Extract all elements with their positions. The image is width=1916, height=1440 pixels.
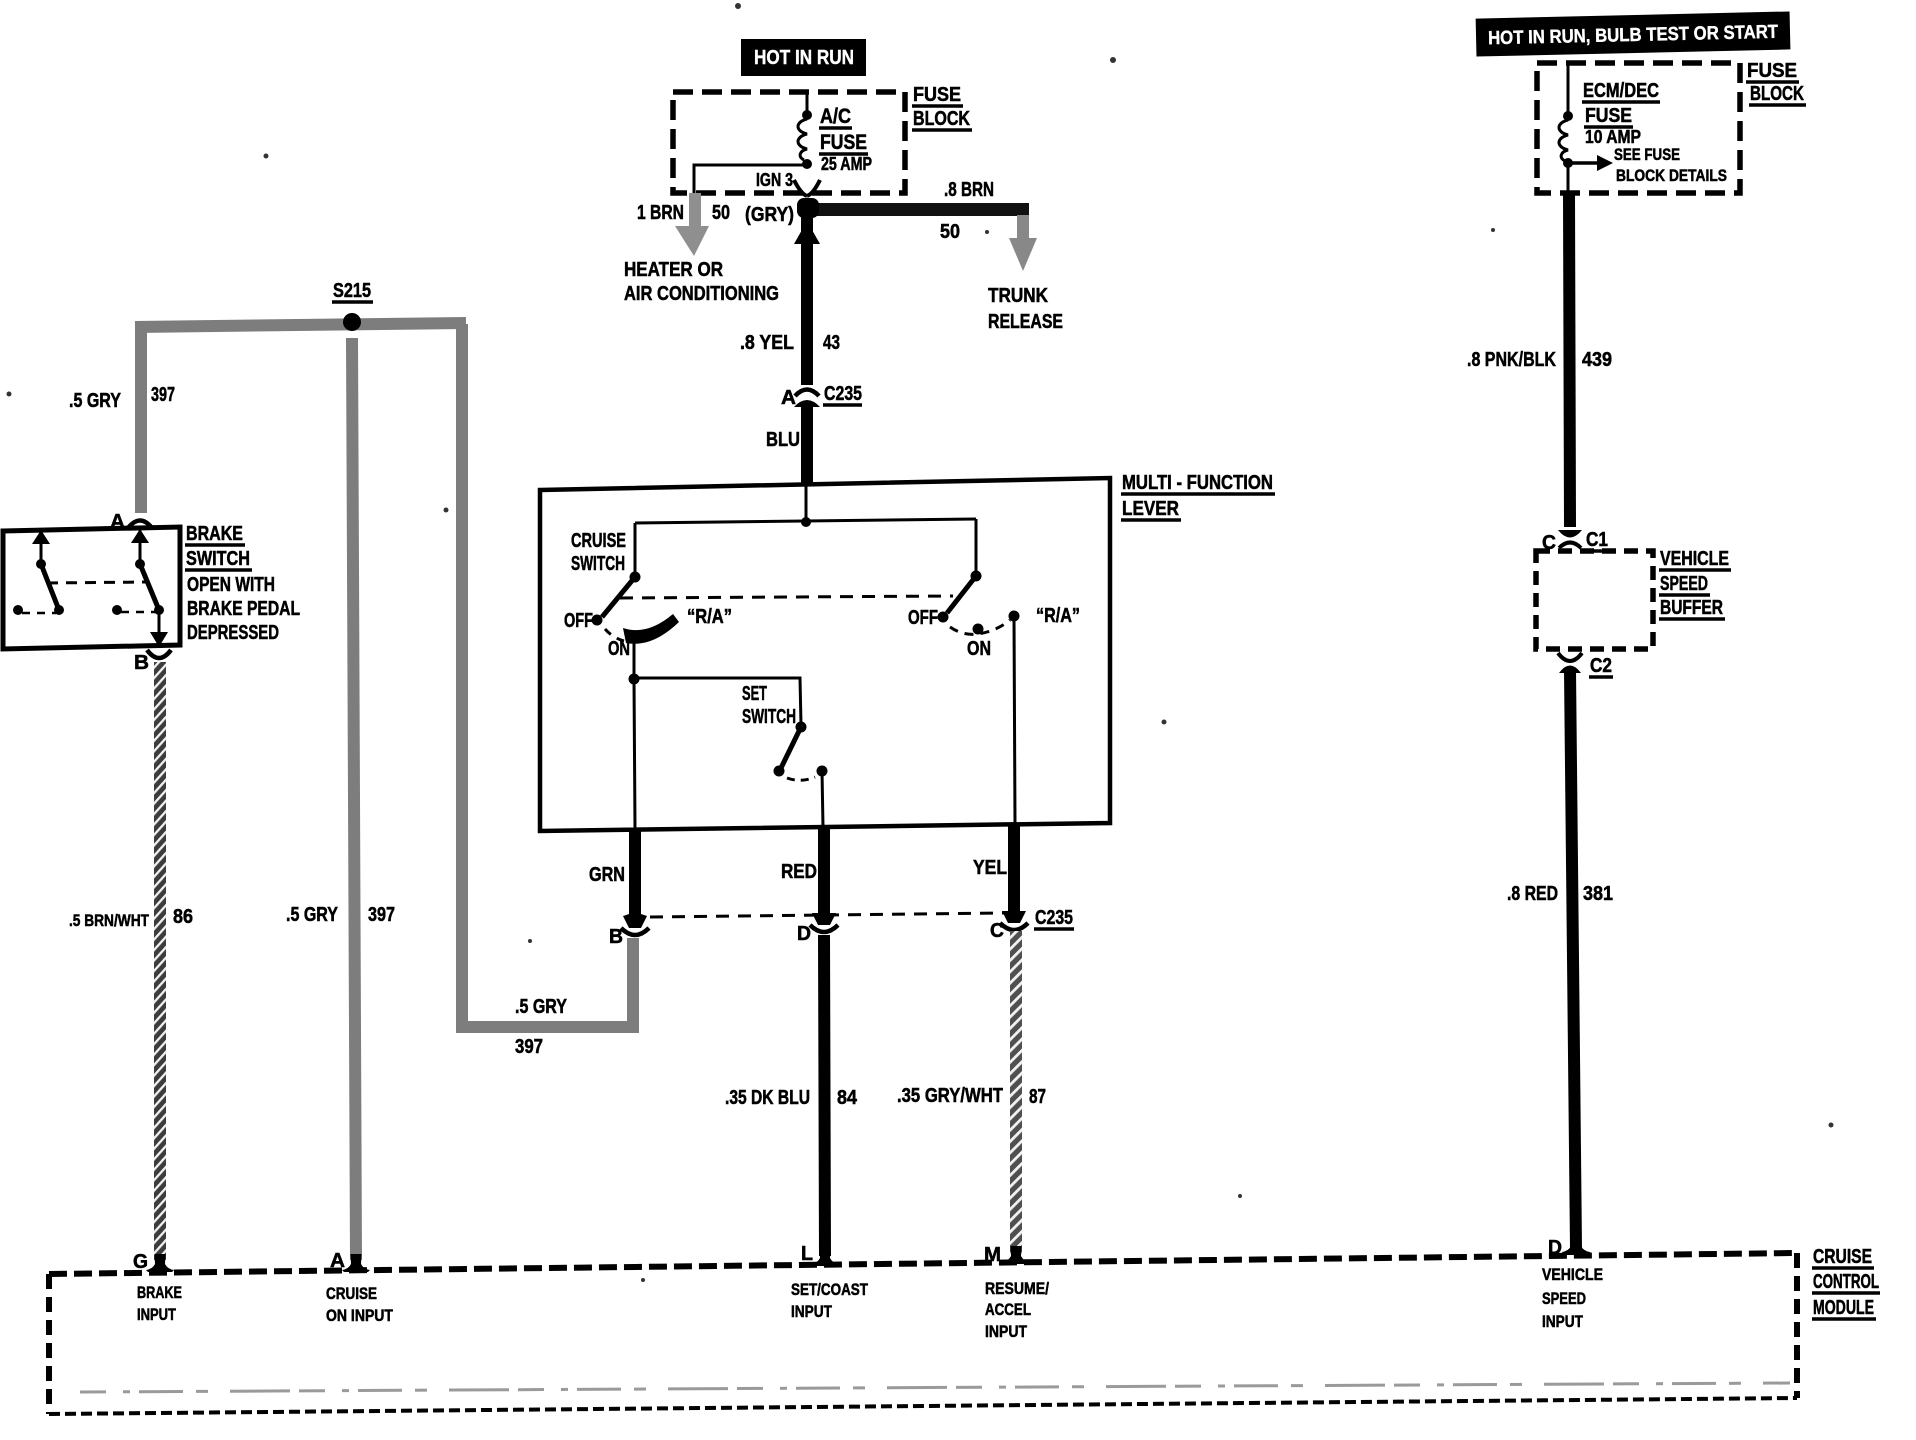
svg-text:IGN 3: IGN 3 [756,170,793,190]
wire fuse block top to fuse [806,92,809,113]
connector module pin L [811,1248,839,1266]
label IGN 3 (GRY) [745,170,794,226]
label .5 BRN/WHT 86 [69,906,193,930]
dashed throw arc left [605,629,624,641]
svg-text:BRAKE: BRAKE [186,523,243,545]
connector C2 [1558,653,1582,673]
svg-text:OFF: OFF [908,607,938,629]
label C2 [1589,655,1613,677]
connector module pin M [1002,1246,1030,1264]
connector C1 [1558,530,1582,548]
svg-text:397: 397 [151,384,175,406]
label .8 PNK/BLK 439 [1467,349,1612,371]
multi-function lever box [540,478,1110,831]
label .8 BRN 50 [940,179,994,243]
svg-text:CRUISE: CRUISE [571,530,626,552]
label VEHICLE SPEED INPUT [1542,1265,1603,1331]
connector brake switch pin A [128,521,152,529]
arrow up left pole [32,530,50,544]
node right pole pivot [135,559,145,569]
connector C235 pin B [621,912,649,935]
dashed throw arc set switch [787,777,815,780]
svg-text:INPUT: INPUT [985,1322,1028,1341]
svg-text:.8 YEL: .8 YEL [740,332,794,354]
arrow up at junction [794,221,820,244]
dashed connector line C235 [650,913,1004,917]
svg-text:FUSE: FUSE [820,131,867,154]
svg-text:B: B [134,652,149,674]
label HEATER OR AIR CONDITIONING [624,259,779,305]
label .35 GRY/WHT 87 [897,1085,1046,1108]
wire .5 GRY horizontal at S215 [135,323,466,327]
svg-text:GRN: GRN [589,864,625,886]
connector C235 pin C [1000,911,1028,930]
svg-text:M: M [984,1244,1001,1266]
wire ECM fuse top [1567,63,1570,114]
label CRUISE SWITCH [571,530,626,575]
svg-text:.35 GRY/WHT: .35 GRY/WHT [897,1085,1003,1107]
label RESUME/ACCEL INPUT [985,1279,1049,1341]
svg-text:BRAKE: BRAKE [137,1283,182,1302]
node set contact right [817,766,828,777]
svg-text:HEATER OR: HEATER OR [624,259,723,281]
svg-text:C: C [990,920,1004,942]
svg-text:B: B [609,926,623,948]
wire left drop to cruise switch [634,523,637,574]
node OFF contact right [938,612,949,623]
svg-text:VEHICLE: VEHICLE [1542,1265,1603,1284]
fuse block (ECM) dashed box [1537,63,1740,193]
dashed contact link left [22,612,56,615]
svg-text:SET/COAST: SET/COAST [791,1280,868,1299]
svg-text:.8 PNK/BLK: .8 PNK/BLK [1467,349,1556,371]
brake switch box [3,527,180,649]
node left pole pivot [36,559,46,569]
svg-text:CRUISE: CRUISE [326,1284,377,1303]
wire lever bus horizontal [635,519,976,523]
label .5 GRY 397 (elbow) [515,996,568,1058]
svg-text:.5 GRY: .5 GRY [286,904,339,926]
wire ON contact down [633,638,636,678]
node ECM fuse bottom terminal [1563,158,1573,168]
svg-text:A: A [330,1250,345,1272]
wire GRN out of lever [629,829,641,916]
svg-text:.8 BRN: .8 BRN [944,179,994,201]
svg-text:ECM/DEC: ECM/DEC [1583,80,1659,102]
dashed throw arc right with ON node [950,620,1010,634]
svg-text:1 BRN: 1 BRN [637,202,684,224]
svg-text:BLOCK: BLOCK [1750,83,1804,105]
wire .5 GRY 397 middle leg to module A [352,338,356,1260]
connector brake switch pin B [147,650,171,658]
label C235 (row) [1034,907,1074,929]
svg-text:SWITCH: SWITCH [571,553,625,575]
svg-text:RESUME/: RESUME/ [985,1279,1049,1298]
svg-text:ON INPUT: ON INPUT [326,1306,393,1325]
power feed label HOT IN RUN, BULB TEST OR START [1476,11,1791,56]
wire junction to set switch [634,678,801,725]
wire .5 BRN/WHT 86 [154,662,166,1260]
label 1 BRN 50 [637,202,730,224]
svg-text:50: 50 [712,202,730,224]
svg-text:.5 BRN/WHT: .5 BRN/WHT [69,911,149,930]
svg-text:OPEN WITH: OPEN WITH [187,574,275,596]
svg-text:BLOCK: BLOCK [913,108,970,130]
svg-text:CRUISE: CRUISE [1813,1246,1872,1268]
switch blade right (brake) [140,564,159,610]
dashed coupling line cruise switches [620,596,953,598]
svg-text:SEE FUSE: SEE FUSE [1614,145,1680,164]
svg-text:FUSE: FUSE [913,84,961,106]
node set switch pivot [796,722,807,733]
node OFF contact left [592,615,603,626]
cruise control module dashed box [49,1253,1797,1414]
node junction at IGN3 output [797,198,819,218]
connector C235 pin A [794,390,820,408]
connector module pin A [342,1254,370,1272]
svg-text:D: D [797,923,811,945]
lever sweep arc (R/A) left [623,614,679,644]
label A/C FUSE 25 AMP [819,105,872,174]
node splice S215 [343,313,361,331]
wire .8 BRN 50 to trunk release [799,203,1037,271]
svg-text:C1: C1 [1586,529,1608,551]
wire BLU into multi-function lever [801,404,813,485]
dashed mechanical link brake switch [47,582,148,583]
svg-text:“R/A”: “R/A” [1036,605,1080,627]
label .5 GRY 397 (left) [69,384,175,412]
node left contact [54,605,64,615]
connector at fuse block output (IGN 3) [794,180,820,196]
svg-text:INPUT: INPUT [1542,1312,1583,1331]
arrow up right pole [131,529,149,543]
wire .35 DK BLU 84 [824,935,825,1256]
splice S215 label [332,280,373,302]
wire RED out of lever [818,826,830,913]
connector cruise module pin D [1562,1236,1590,1255]
label C235 [823,383,862,405]
wire YEL out of lever [1008,824,1020,911]
node cruise switch pivot (right) [971,571,982,582]
label TRUNK RELEASE [988,285,1063,333]
node fuse F1 top terminal [802,110,812,120]
label FUSE BLOCK (center) [912,84,972,130]
svg-text:397: 397 [368,904,395,926]
connector module pin G [146,1254,174,1272]
label BRAKE INPUT [137,1283,182,1324]
wire right drop to cruise switch right [975,519,978,574]
wire set contact to RED out [822,771,823,827]
fuse F2 ECM/DEC FUSE 10 AMP [1559,120,1568,161]
svg-text:86: 86 [173,906,193,928]
svg-text:RELEASE: RELEASE [988,311,1063,333]
svg-text:.5 GRY: .5 GRY [69,390,122,412]
wire right contact down with arrow [158,610,161,637]
label FUSE BLOCK (right) [1746,60,1806,105]
svg-text:OFF: OFF [564,610,593,632]
svg-text:381: 381 [1583,883,1613,905]
wire .5 GRY 397 left leg to brake switch [135,327,147,513]
wire 1 BRN 50 arrow to heater [675,193,709,256]
label .5 GRY 397 (middle) [286,904,395,926]
svg-text:ON: ON [608,638,630,660]
switch blade set [781,727,801,768]
label .35 DK BLU 84 [725,1087,858,1109]
wire junction to GRN out [634,679,635,829]
svg-text:YEL: YEL [973,857,1007,879]
svg-text:.35 DK BLU: .35 DK BLU [725,1087,810,1109]
node ECM fuse top terminal [1563,111,1573,121]
svg-text:DEPRESSED: DEPRESSED [187,622,279,644]
node GRN/SET junction [629,674,640,685]
svg-text:BUFFER: BUFFER [1660,597,1723,619]
vehicle speed buffer dashed box [1536,551,1653,649]
label BRAKE SWITCH OPEN WITH BRAKE PEDAL DEPRESSED [185,523,300,644]
fuse F1 A/C FUSE 25 AMP [798,119,807,160]
svg-text:BLOCK DETAILS: BLOCK DETAILS [1616,166,1727,185]
svg-text:INPUT: INPUT [791,1302,832,1321]
node right stationary contact [112,605,122,615]
switch blade cruise right [947,576,976,613]
svg-text:(GRY): (GRY) [745,204,794,226]
svg-text:VEHICLE: VEHICLE [1660,548,1729,570]
svg-text:43: 43 [823,332,840,354]
svg-text:G: G [133,1251,148,1273]
svg-text:439: 439 [1582,349,1612,371]
svg-text:C2: C2 [1590,655,1612,677]
svg-text:MODULE: MODULE [1813,1297,1874,1319]
svg-text:ON: ON [967,638,991,660]
label CRUISE CONTROL MODULE [1812,1246,1880,1319]
svg-text:FUSE: FUSE [1747,60,1797,82]
svg-text:INPUT: INPUT [137,1305,176,1324]
svg-text:RED: RED [781,861,817,883]
svg-text:SWITCH: SWITCH [186,548,250,570]
node fuse F1 bottom terminal [802,159,812,169]
svg-text:SET: SET [742,683,767,705]
wire lever feed [805,484,808,521]
svg-text:L: L [801,1243,813,1265]
svg-text:A: A [781,387,796,409]
svg-text:A/C: A/C [820,105,851,128]
svg-text:CONTROL: CONTROL [1813,1271,1879,1293]
brake switch right pole wire from A [139,529,142,562]
label SET/COAST INPUT [791,1280,868,1321]
svg-text:SPEED: SPEED [1542,1289,1586,1308]
svg-text:397: 397 [515,1036,543,1058]
svg-text:ACCEL: ACCEL [985,1300,1031,1319]
svg-text:50: 50 [940,221,960,243]
label .8 YEL 43 [740,332,840,354]
svg-text:TRUNK: TRUNK [988,285,1048,307]
wire .8 YEL 43 vertical [801,214,813,385]
dashed contact link right [121,611,156,614]
wire .8 PNK/BLK 439 [1569,193,1570,527]
svg-text:25 AMP: 25 AMP [821,154,872,174]
svg-text:10 AMP: 10 AMP [1585,127,1641,147]
node lever feed junction [801,517,811,527]
svg-text:.8 RED: .8 RED [1507,883,1558,905]
node left stationary contact [13,605,23,615]
svg-text:87: 87 [1029,1086,1046,1108]
svg-text:FUSE: FUSE [1585,105,1632,127]
svg-text:MULTI - FUNCTION: MULTI - FUNCTION [1122,472,1273,494]
node set contact left [774,766,785,777]
node R/A contact right [1009,611,1020,622]
svg-text:BLU: BLU [766,429,800,451]
svg-text:“R/A”: “R/A” [687,606,732,628]
node right contact [154,605,164,615]
svg-text:LEVER: LEVER [1122,498,1179,520]
switch blade cruise left [602,577,635,617]
svg-text:HOT IN RUN: HOT IN RUN [754,47,854,69]
svg-text:AIR CONDITIONING: AIR CONDITIONING [624,283,779,305]
svg-text:BRAKE PEDAL: BRAKE PEDAL [187,598,300,620]
label .8 RED 381 [1507,883,1613,905]
connector C235 pin D [810,913,838,932]
label CRUISE ON INPUT [326,1284,393,1325]
arrow SEE FUSE BLOCK DETAILS [1572,155,1613,171]
node cruise switch pivot (left) [630,572,641,583]
wire .8 RED 381 [1570,670,1576,1248]
svg-text:S215: S215 [333,280,371,302]
label SEE FUSE BLOCK DETAILS [1614,145,1727,185]
node ON contact right [973,624,984,635]
label ECM/DEC FUSE 10 AMP [1582,80,1660,147]
brake switch left pole [40,531,43,562]
svg-text:.5 GRY: .5 GRY [515,996,568,1018]
label VEHICLE SPEED BUFFER [1659,548,1731,619]
wire R/A contact to YEL out [1014,616,1015,824]
svg-text:C235: C235 [1035,907,1073,929]
label MULTI-FUNCTION LEVER [1121,472,1275,520]
wire .5 GRY 397 right leg elbow to C235 B [462,324,633,1027]
power feed label HOT IN RUN [741,39,866,76]
wire ECM fuse to block bottom [1567,165,1570,193]
fuse block (A/C) dashed box [673,92,905,193]
svg-text:C235: C235 [824,383,862,405]
svg-text:84: 84 [837,1087,858,1109]
svg-text:SWITCH: SWITCH [742,706,796,728]
label SET SWITCH [742,683,796,728]
arrow down to B [150,632,168,647]
wire .35 GRY/WHT 87 [1010,931,1022,1255]
svg-text:SPEED: SPEED [1660,573,1708,595]
wire branch to heater inside fuse block [694,165,804,193]
label C1 [1585,529,1609,551]
switch blade left (brake) [41,564,59,610]
